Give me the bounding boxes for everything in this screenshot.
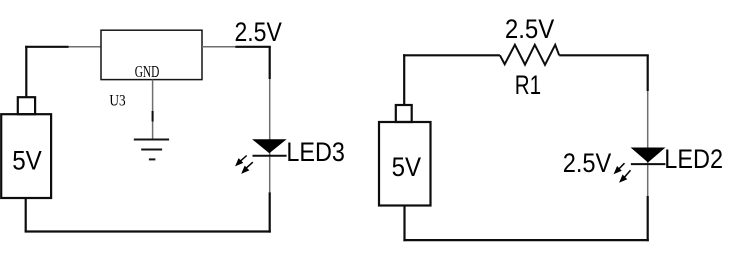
svg-text:LED3: LED3	[286, 137, 345, 167]
svg-text:GND: GND	[135, 62, 160, 81]
svg-text:U3: U3	[109, 93, 126, 110]
svg-text:2.5V: 2.5V	[563, 148, 612, 178]
svg-text:5V: 5V	[12, 145, 42, 175]
svg-text:2.5V: 2.5V	[505, 14, 554, 44]
svg-text:5V: 5V	[392, 152, 421, 182]
svg-text:LED2: LED2	[664, 144, 723, 174]
svg-text:R1: R1	[515, 70, 541, 100]
svg-text:2.5V: 2.5V	[235, 17, 282, 47]
